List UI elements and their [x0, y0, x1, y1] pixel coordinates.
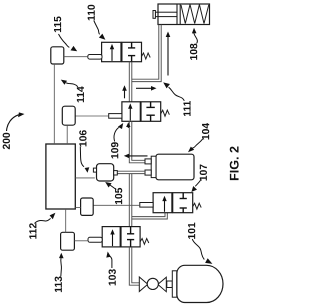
label 109	[111, 142, 118, 158]
wire 106 from controller 112 to pump left cap	[75, 177, 95, 179]
pump P105 body	[97, 164, 114, 181]
pipe from cylinder 108 port down to branch junction	[132, 25, 161, 82]
hand valve left triangle	[139, 277, 148, 292]
leader arrow 108	[194, 33, 198, 44]
accumulator 101 flange	[172, 271, 177, 297]
leader arrow 103	[109, 255, 112, 268]
valve V103 right box blocked port symbols	[127, 227, 134, 247]
leader arrow 106	[80, 147, 84, 167]
valve V107 right box blocked port symbols	[180, 193, 187, 213]
label 105	[115, 188, 122, 204]
motor M104 body	[156, 154, 194, 180]
accumulator 101 body	[177, 265, 223, 302]
leader arrow 115	[59, 34, 70, 47]
label 107	[200, 164, 207, 180]
cylinder C108 rod end cap	[153, 11, 155, 19]
leader arrow 101	[192, 239, 204, 260]
pipe from valve 110 down to valve 111	[129, 62, 132, 102]
valve V110 spring	[142, 53, 151, 59]
solenoid box 115	[51, 47, 64, 64]
hand valve circle	[147, 278, 158, 289]
pump P105 right cap	[114, 171, 118, 175]
label 111	[183, 101, 190, 116]
valve V110 left box flow arrow	[111, 48, 113, 61]
cylinder C108 piston	[177, 4, 180, 25]
flow arrow left on motor-pump pipe	[129, 155, 148, 157]
valve V110 pilot actuator	[88, 55, 102, 60]
leader arrow 105	[110, 185, 116, 190]
branch pipe to valve 107	[132, 213, 168, 219]
wire from 114 component down to controller 112	[66, 125, 68, 144]
valve V111 spring	[161, 110, 170, 116]
pilot wire from box 115 to valve 110 pilot	[64, 56, 88, 58]
valve V107 right box	[173, 193, 193, 213]
wire 114 from box 115 down to controller 112	[53, 64, 55, 144]
pipe valve 111 down then right to motor top port	[129, 121, 145, 163]
valve V103 right box	[121, 227, 140, 247]
solenoid small box (107 driver)	[81, 198, 94, 215]
valve V111 pilot actuator	[109, 114, 122, 119]
pipe motor bottom port to pump right cap	[118, 171, 146, 173]
valve V107 pilot actuator	[140, 203, 153, 208]
leader arrow 107	[195, 180, 201, 187]
pilot wire from component 114box to valve 111 pilot	[75, 115, 109, 117]
valve V110 left box	[102, 42, 121, 61]
motor M104 top nipple	[145, 159, 151, 164]
pump P105 left cap	[93, 168, 96, 172]
hand valve right triangle	[158, 277, 167, 292]
flow arrow right on branch pipe	[136, 87, 152, 89]
label 110	[88, 5, 95, 21]
valve V107 left box flow arrow	[164, 200, 166, 212]
label 200	[3, 133, 10, 149]
label 114	[77, 86, 84, 102]
cylinder C108 spring	[181, 5, 209, 24]
valve V111 right box blocked port symbols	[146, 102, 154, 122]
cylinder C108 rod	[155, 12, 177, 16]
pilot wire from small box to valve 107 pilot	[93, 204, 140, 206]
label 106	[79, 130, 86, 146]
valve V110 right box blocked port symbols	[128, 42, 135, 61]
flow arrow up above valve 111	[124, 90, 126, 99]
valve V103 left box	[102, 227, 120, 247]
motor M104 flange	[151, 156, 156, 177]
solenoid box (114 component)	[62, 106, 75, 125]
valve V110 right box	[122, 42, 142, 61]
label 113	[55, 277, 62, 293]
label 115	[54, 16, 61, 32]
flow arrow up at valve 111 bottom	[127, 125, 129, 129]
pipe valve 103 down then right to hand valve	[129, 247, 139, 285]
leader arrow 113	[60, 258, 63, 277]
wire controller 112 down to box 113	[65, 209, 67, 232]
main pipe drop from junction to valve 103	[129, 174, 132, 227]
valve V111 left box	[122, 102, 140, 122]
wire box 113 to valve 103 pilot	[74, 240, 88, 242]
accumulator 101 nipple	[167, 281, 173, 288]
cylinder C108 body	[158, 4, 210, 25]
label 104	[202, 123, 209, 139]
label 112	[29, 223, 36, 239]
motor M104 bottom nipple	[145, 170, 151, 175]
leader arrow 114	[66, 83, 78, 87]
solenoid box 113	[61, 232, 75, 250]
leader arrow 104	[192, 139, 203, 149]
leader arrow 110	[94, 21, 100, 35]
leader arrow 112	[35, 218, 51, 223]
valve V107 left box	[153, 193, 172, 213]
leader arrow 109	[114, 127, 119, 141]
label 103	[109, 269, 116, 285]
valve V107 spring	[193, 203, 202, 209]
valve V103 spring	[140, 239, 149, 245]
controller box 112	[46, 144, 75, 209]
leader arrow 200	[7, 115, 19, 131]
valve V103 pilot actuator	[88, 237, 102, 242]
leader arrow 111	[169, 87, 185, 101]
valve V111 right box	[141, 102, 161, 122]
valve V111 left box flow arrow	[129, 108, 131, 121]
label 101	[188, 223, 195, 239]
wire controller 112 to small box	[75, 207, 80, 209]
valve V103 left box flow arrow	[112, 234, 114, 247]
flow arrow up near cylinder port	[167, 36, 169, 76]
label FIG. 2	[230, 146, 239, 180]
label 108	[190, 44, 197, 60]
